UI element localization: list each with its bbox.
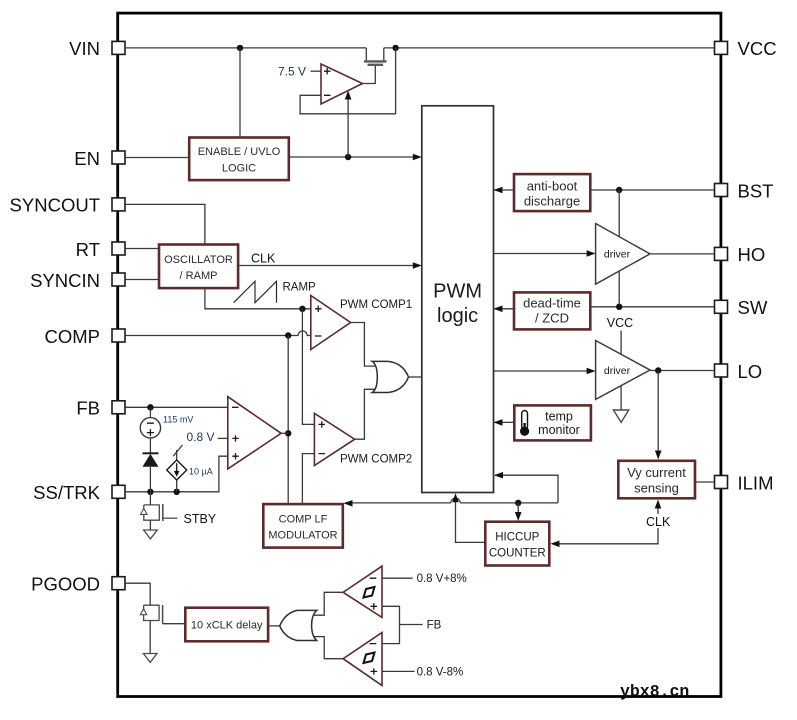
wire SYNCOUT to oscillator — [125, 204, 205, 244]
svg-text:VCC: VCC — [738, 38, 777, 59]
block dead-time / ZCD — [514, 292, 590, 329]
wire RT to oscillator — [125, 248, 159, 250]
wire fault net to PWM logic — [494, 472, 558, 503]
node VIN-EN branch — [237, 45, 243, 51]
svg-text:FB: FB — [76, 398, 100, 419]
wire anti-boot to PWM logic — [494, 187, 514, 194]
node ramp junction — [299, 306, 305, 312]
pin EN — [74, 148, 125, 169]
pin ILIM — [715, 472, 774, 493]
transistor PGOOD — [140, 605, 162, 624]
icon thermometer — [520, 411, 529, 436]
pin VCC — [715, 38, 777, 59]
wire Vy sensing to ILIM — [695, 481, 715, 483]
svg-text:VIN: VIN — [69, 38, 100, 59]
wire OR output to PWM logic — [409, 376, 422, 378]
pin HO — [715, 244, 766, 265]
wire SS/TRK input — [125, 456, 228, 492]
wire LDO output to pass gate — [363, 66, 376, 84]
diode D1 — [143, 453, 159, 492]
svg-text:SW: SW — [738, 297, 768, 318]
label 10 uA — [189, 467, 213, 477]
comparator PGOOD low — [343, 633, 382, 686]
svg-text:HO: HO — [738, 244, 766, 265]
wire comparator high to OR2 — [314, 592, 343, 615]
svg-text:ybx8.cn: ybx8.cn — [620, 682, 689, 701]
pin SW — [715, 297, 768, 318]
svg-text:COMP LF: COMP LF — [279, 514, 328, 526]
wire PWM COMP2 output to OR — [355, 389, 378, 439]
label STBY — [184, 512, 217, 526]
svg-text:monitor: monitor — [538, 423, 580, 437]
block HICCUP COUNTER — [485, 522, 549, 566]
comparator PWM COMP2 — [314, 413, 354, 465]
pin BST — [715, 180, 774, 201]
label 115 mV — [163, 415, 193, 425]
svg-text:CLK: CLK — [251, 252, 276, 266]
svg-text:temp: temp — [545, 410, 573, 424]
svg-text:RT: RT — [76, 239, 100, 260]
wire UVLO output to PWM logic — [289, 154, 422, 161]
block Vy current sensing — [618, 461, 695, 499]
wire EN to UVLO — [125, 157, 189, 159]
block OSCILLATOR/RAMP — [159, 245, 238, 289]
svg-text:driver: driver — [604, 249, 631, 261]
label CLK oscillator — [251, 252, 276, 266]
svg-text:10 xCLK delay: 10 xCLK delay — [191, 620, 263, 632]
svg-text:SYNCOUT: SYNCOUT — [10, 195, 100, 216]
pin PGOOD — [31, 574, 125, 595]
wire CLK to PWM logic — [238, 262, 422, 269]
wire anti-boot to BST — [590, 189, 714, 191]
svg-text:anti-boot: anti-boot — [527, 179, 578, 194]
wire FB input — [125, 406, 228, 408]
svg-text:dead-time: dead-time — [523, 296, 581, 311]
driver LO — [596, 341, 650, 400]
wire SW line — [590, 306, 714, 308]
wire LO driver output — [650, 370, 715, 372]
svg-text:7.5 V: 7.5 V — [278, 65, 306, 79]
wire VIN rail — [125, 48, 715, 61]
label 0.8 V-8% — [417, 667, 464, 679]
svg-text:CLK: CLK — [646, 515, 671, 529]
pin COMP — [45, 326, 126, 347]
block PWM logic — [422, 106, 494, 493]
node FB junction — [147, 404, 153, 410]
ramp sawtooth symbol — [234, 281, 277, 302]
wire SYNCIN to oscillator — [125, 279, 159, 281]
svg-text:PWM: PWM — [433, 281, 482, 303]
wire dead-time to PWM logic — [494, 306, 514, 313]
current source 10uA — [167, 445, 187, 492]
wire LDO feedback loop — [300, 48, 396, 114]
svg-text:MODULATOR: MODULATOR — [268, 530, 337, 542]
wire PWM logic to HO driver — [494, 250, 596, 257]
svg-text:STBY: STBY — [184, 512, 217, 526]
wire comparator low to OR2 — [314, 637, 343, 659]
wire 0.8V-8% reference — [382, 670, 415, 672]
pin RT — [76, 239, 125, 260]
node VCC feedback — [392, 45, 398, 51]
wire RAMP output — [205, 288, 311, 309]
node SW junction — [616, 304, 622, 310]
node UVLO-LDO branch — [345, 154, 351, 160]
pin SYNCIN — [30, 270, 125, 291]
wire hiccup counter output to PWM logic — [452, 493, 485, 542]
wire COMP to PWM COMP1 — [125, 331, 311, 336]
wire COMP node vertical — [287, 336, 289, 505]
svg-text:COMP: COMP — [45, 326, 101, 347]
comparator PGOOD high — [343, 566, 382, 617]
node SS/TRK diode junction — [147, 489, 153, 495]
wire UVLO to LDO enable — [345, 91, 352, 158]
svg-text:VCC: VCC — [607, 316, 633, 330]
node LO junction — [655, 367, 661, 373]
comparator PWM COMP1 — [311, 296, 351, 350]
wire HO driver output — [650, 253, 715, 255]
svg-text:/ RAMP: / RAMP — [180, 270, 218, 282]
label FB internal — [427, 620, 442, 632]
svg-text:BST: BST — [738, 180, 774, 201]
svg-text:FB: FB — [427, 620, 442, 632]
svg-text:sensing: sensing — [634, 481, 679, 496]
wire PWM COMP1 output to OR — [351, 323, 378, 367]
svg-text:0.8 V+8%: 0.8 V+8% — [417, 573, 467, 585]
watermark ybx8.cn — [620, 682, 689, 701]
svg-text:logic: logic — [437, 305, 478, 327]
wire VCC to LO driver supply — [620, 331, 622, 355]
svg-text:PGOOD: PGOOD — [31, 574, 100, 595]
wire 7.5V stub — [311, 70, 322, 72]
wire VIN to UVLO top — [239, 48, 241, 138]
svg-text:ILIM: ILIM — [738, 472, 774, 493]
voltage source 115mV — [140, 407, 160, 453]
svg-text:SS/TRK: SS/TRK — [33, 482, 100, 503]
node SS/TRK source junction — [174, 489, 180, 495]
svg-text:OSCILLATOR: OSCILLATOR — [164, 254, 233, 266]
node COMP junction — [285, 332, 291, 338]
svg-text:driver: driver — [604, 365, 631, 377]
label RAMP — [283, 281, 317, 293]
ground LO driver — [613, 386, 628, 423]
svg-text:/ ZCD: / ZCD — [535, 311, 569, 326]
wire fault net to hiccup counter — [515, 503, 522, 521]
svg-text:0.8 V: 0.8 V — [186, 430, 214, 444]
svg-text:COUNTER: COUNTER — [489, 548, 546, 560]
wire PWM logic to LO driver — [494, 368, 596, 375]
wire delay block to PGOOD gate — [163, 623, 186, 625]
wire temp monitor to PWM logic — [494, 419, 515, 426]
svg-text:SYNCIN: SYNCIN — [30, 270, 100, 291]
wire ramp to PWM COMP2 plus — [302, 309, 314, 425]
svg-text:LO: LO — [738, 361, 763, 382]
node error amp output — [285, 430, 291, 436]
or-gate U2 — [372, 361, 408, 392]
svg-text:PWM COMP2: PWM COMP2 — [340, 454, 412, 466]
svg-text:PWM COMP1: PWM COMP1 — [340, 299, 412, 311]
svg-text:115 mV: 115 mV — [163, 415, 193, 425]
label 7.5 V — [278, 65, 306, 79]
node fault-hiccup junction — [515, 500, 521, 506]
svg-text:Vy current: Vy current — [627, 465, 686, 480]
transistor STBY — [141, 492, 178, 521]
block temp monitor — [514, 405, 591, 440]
svg-text:discharge: discharge — [524, 194, 580, 209]
wire BST to HO driver supply — [618, 190, 620, 237]
or-gate U3 PGOOD — [280, 610, 317, 640]
op-amp LDO 7.5V — [321, 64, 363, 104]
pin LO — [715, 361, 763, 382]
IC boundary — [118, 13, 721, 696]
wire COMP LF modulator to PWM COMP2 minus — [302, 454, 314, 505]
driver HO — [596, 224, 650, 285]
wire 0.8V+8% reference — [382, 577, 413, 579]
node BST junction — [616, 187, 622, 193]
ground PGOOD — [143, 621, 157, 663]
label CLK bottom — [645, 514, 672, 529]
wire FB to PGOOD comparators — [382, 606, 423, 643]
svg-text:ENABLE / UVLO: ENABLE / UVLO — [198, 146, 281, 158]
pin FB — [76, 398, 125, 419]
wire PGOOD to transistor — [125, 583, 150, 605]
label 0.8 V+8% — [417, 573, 467, 585]
wire OR2 output to delay block — [268, 625, 280, 627]
pin SYNCOUT — [10, 195, 125, 216]
ground STBY — [144, 520, 158, 539]
block anti-boot discharge — [514, 174, 590, 211]
label PWM COMP2 — [340, 454, 412, 466]
label PWM COMP1 — [340, 299, 412, 311]
label VCC internal — [607, 316, 633, 330]
svg-text:RAMP: RAMP — [283, 281, 317, 293]
wire CLK to Vy sensing and hiccup counter — [551, 500, 662, 548]
pin VIN — [69, 38, 125, 59]
block COMP LF MODULATOR — [263, 504, 343, 547]
svg-text:HICCUP: HICCUP — [495, 532, 539, 544]
block ENABLE/UVLO LOGIC — [189, 138, 289, 181]
pin SS/TRK — [33, 482, 125, 503]
svg-text:EN: EN — [74, 148, 100, 169]
wire error amp output stub — [281, 432, 288, 434]
wire LO to Vy current sensing — [655, 371, 662, 460]
op-amp error amplifier — [228, 397, 281, 469]
wire fault net to COMP LF modulator — [344, 498, 559, 506]
wire HO driver to SW — [618, 271, 620, 307]
transistor pass device — [364, 61, 387, 64]
block 10 xCLK delay — [185, 608, 268, 642]
wire 0.8V stub — [218, 437, 228, 439]
label 0.8 V — [186, 430, 214, 444]
svg-text:0.8 V-8%: 0.8 V-8% — [417, 667, 464, 679]
svg-text:10 µA: 10 µA — [189, 467, 213, 477]
svg-text:LOGIC: LOGIC — [222, 163, 256, 175]
